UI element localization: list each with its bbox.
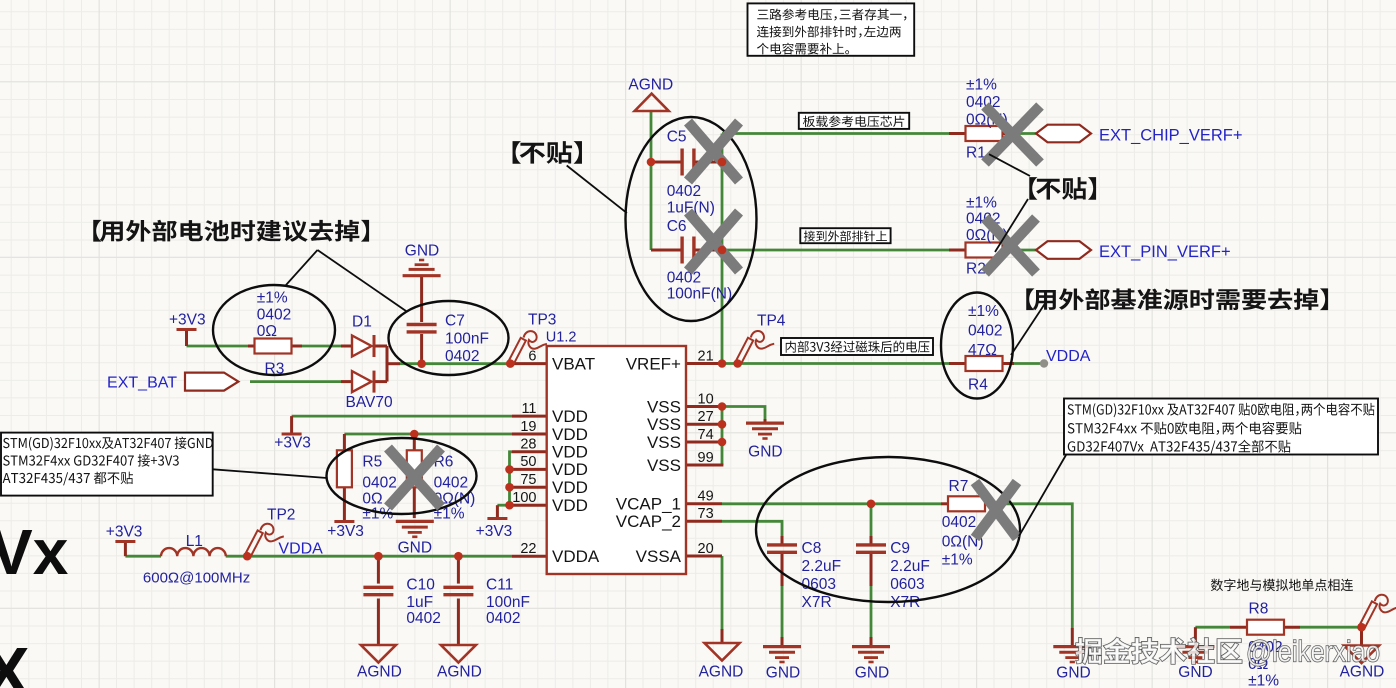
note text left STM line2	[3, 454, 179, 467]
svg-text:GND: GND	[1056, 665, 1090, 682]
svg-text:±1%: ±1%	[966, 195, 997, 212]
wire VCAP_1 net	[722, 502, 941, 505]
lead pin50 stub	[512, 468, 547, 471]
lead C5 left	[651, 161, 682, 164]
wire R1 to port	[1002, 132, 1036, 135]
resistor R5	[337, 450, 352, 487]
svg-text:TP4: TP4	[757, 313, 786, 330]
lead D1b anode	[341, 380, 352, 383]
wire R2 to port	[1002, 249, 1036, 252]
resistor R1	[966, 126, 1003, 141]
node VDDA no-erc dot	[1040, 359, 1048, 367]
lead R6 bottom	[413, 487, 416, 518]
lead C10 bottom	[377, 599, 380, 646]
svg-text:X: X	[0, 633, 30, 688]
wire +3V3 to R3	[187, 345, 249, 348]
junction pin10	[718, 402, 727, 411]
test point TP3	[508, 331, 547, 365]
svg-text:0402: 0402	[942, 514, 976, 531]
callout remove when external battery	[93, 220, 369, 242]
wire VREF+ rail	[722, 362, 949, 365]
svg-text:L1: L1	[186, 533, 203, 550]
svg-text:0402: 0402	[667, 270, 701, 287]
lead R5 bottom	[343, 487, 346, 520]
svg-text:VDD: VDD	[552, 425, 588, 444]
wire VSS to GND	[722, 407, 765, 422]
resistor R8	[1247, 620, 1284, 635]
svg-text:21: 21	[698, 348, 714, 364]
pointer from left bu-tie note to C5C6 ellipse	[567, 166, 627, 214]
svg-text:28: 28	[520, 437, 536, 453]
power +3V3 bar for pin100	[487, 517, 507, 520]
junction C5 left	[647, 158, 656, 167]
lead pin19 stub	[512, 433, 547, 436]
wire VDD right bus	[510, 452, 513, 505]
svg-text:VSS: VSS	[647, 456, 681, 475]
ellipse around R4	[941, 293, 1013, 399]
lead R3 right	[290, 345, 302, 348]
lead +3V3 pin100feed	[496, 505, 499, 517]
power +3V3 bar for R3	[177, 328, 197, 331]
pointer from right bu-tie note to R2 X	[995, 199, 1028, 252]
svg-text:+3V3: +3V3	[327, 523, 364, 540]
junction pin100	[505, 501, 514, 510]
wire EXT_BAT to D1	[250, 380, 341, 383]
svg-text:±1%: ±1%	[257, 290, 288, 307]
svg-text:27: 27	[698, 409, 714, 425]
diode D1 top half	[352, 336, 372, 357]
ground AGND under C10	[361, 645, 396, 663]
junction pin74	[718, 438, 727, 447]
svg-text:VDDA: VDDA	[1046, 348, 1091, 365]
ground GND under R6	[396, 520, 434, 523]
wire R8 right	[1300, 626, 1362, 629]
X mark over R2	[985, 218, 1036, 273]
ground AGND under pin20	[705, 643, 740, 661]
svg-text:2.2uF: 2.2uF	[802, 558, 842, 575]
svg-text:2.2uF: 2.2uF	[890, 558, 930, 575]
junction C9 VCAP1	[867, 500, 876, 509]
svg-text:0402: 0402	[667, 183, 701, 200]
svg-text:6: 6	[528, 348, 536, 364]
lead C9 top	[870, 536, 873, 544]
note text right STM line1	[1068, 403, 1375, 417]
svg-text:VREF+: VREF+	[626, 354, 681, 373]
svg-text:C11: C11	[486, 577, 513, 594]
callout bu-tie right	[1029, 177, 1096, 200]
power +3V3 bar for pin11	[282, 433, 302, 436]
wire R2 net	[722, 249, 949, 252]
note box three reference voltages	[748, 3, 915, 55]
X mark over C6	[688, 212, 739, 271]
callout digital analog single point	[1211, 579, 1353, 592]
resistor R3	[255, 339, 292, 354]
svg-text:VDD: VDD	[552, 478, 588, 497]
svg-text:EXT_CHIP_VERF+: EXT_CHIP_VERF+	[1099, 127, 1243, 145]
junction VREF bus	[718, 359, 727, 368]
note text external header	[804, 231, 887, 242]
svg-text:GND: GND	[1178, 664, 1212, 681]
test point TP4	[735, 331, 774, 365]
wire VDDA rail	[226, 555, 512, 558]
junction R8 right	[1357, 623, 1366, 632]
svg-text:AGND: AGND	[699, 664, 744, 681]
ellipse around R5 R6	[327, 438, 477, 514]
capacitor C8	[767, 543, 797, 546]
note text line3	[757, 43, 849, 55]
lead C7 top	[420, 277, 423, 322]
lead C6 right	[694, 249, 722, 252]
junction pin75	[505, 483, 514, 492]
junction C11	[454, 552, 463, 561]
resistor R2	[966, 243, 1003, 258]
svg-text:0402: 0402	[968, 323, 1002, 340]
svg-text:TP3: TP3	[528, 312, 556, 329]
lead C8 bottom stub	[781, 554, 784, 586]
svg-text:@leikerxiao: @leikerxiao	[1246, 636, 1380, 669]
capacitor C6	[680, 237, 683, 264]
lead pin20 stub	[686, 555, 722, 558]
capacitor C11	[443, 586, 473, 589]
ellipse around R3	[213, 285, 335, 375]
lead VSS gnd	[764, 419, 767, 423]
lead pin100 stub	[512, 504, 547, 507]
wire VBAT net	[400, 362, 512, 365]
lead pin6 stub	[510, 362, 546, 365]
svg-text:U1.2: U1.2	[546, 330, 577, 346]
svg-text:GND: GND	[405, 243, 439, 260]
lead D1 output bar	[386, 346, 389, 382]
svg-text:±1%: ±1%	[966, 77, 997, 94]
pointer from right STM note to C8C9 ellipse	[1019, 455, 1066, 536]
svg-text:VCAP_2: VCAP_2	[616, 512, 681, 531]
junction TP2	[243, 552, 252, 561]
wire R4 to VDDA	[1002, 362, 1040, 365]
IC U1.2 body	[547, 346, 686, 574]
capacitor C7	[407, 323, 437, 326]
ground GND under C9	[852, 645, 890, 648]
svg-text:19: 19	[520, 419, 536, 435]
ground AGND right of R8	[1344, 646, 1379, 664]
wire +3V3 to pin100	[497, 504, 509, 507]
note text onboard ref chip	[803, 116, 904, 128]
lead pin27 stub	[686, 423, 722, 426]
lead R2 right	[1002, 249, 1014, 252]
wire R3 to D1	[297, 345, 341, 348]
svg-text:R8: R8	[1249, 601, 1269, 618]
svg-text:C6: C6	[667, 218, 687, 235]
power +3V3 bar for L1	[115, 540, 135, 543]
svg-text:0402: 0402	[257, 307, 291, 324]
svg-text:BAV70: BAV70	[346, 394, 393, 411]
wire VSSA down	[721, 556, 724, 629]
lead GND right bus	[1071, 628, 1074, 645]
svg-text:C8: C8	[802, 540, 822, 557]
svg-text:GND: GND	[748, 444, 782, 461]
lead pin11 stub	[512, 415, 547, 418]
note box 3V3 after bead	[781, 338, 933, 355]
X mark over R1	[985, 106, 1040, 163]
svg-text:VBAT: VBAT	[552, 354, 595, 373]
svg-text:±1%: ±1%	[942, 552, 973, 569]
wire pin11 +3V3 net	[292, 415, 512, 418]
lead R8 agnd right	[1360, 627, 1363, 645]
svg-text:±1%: ±1%	[1248, 673, 1279, 688]
svg-text:Vx: Vx	[0, 516, 69, 588]
junction R6 top	[410, 430, 419, 439]
ground GND near VSS	[746, 422, 784, 425]
lead pin74 stub	[686, 441, 722, 444]
wire R8 left	[1195, 626, 1230, 629]
watermark juejin cjk	[1076, 637, 1242, 664]
port EXT_PIN_VERF+	[1036, 241, 1091, 259]
ground GND left of R8	[1176, 645, 1214, 648]
svg-text:0603: 0603	[890, 576, 924, 593]
svg-text:VSSA: VSSA	[636, 547, 682, 566]
lead pin10 stub	[686, 405, 722, 408]
junction C10	[374, 552, 383, 561]
svg-text:C9: C9	[890, 540, 910, 557]
lead C7 bottom	[420, 334, 423, 364]
svg-text:100nF(N): 100nF(N)	[667, 286, 732, 303]
lead R6 top	[413, 434, 416, 450]
ground AGND under C11	[441, 645, 476, 663]
svg-text:VSS: VSS	[647, 433, 681, 452]
wire pin19 net	[344, 433, 512, 436]
ellipse around C5 C6	[626, 117, 757, 321]
junction C5 right	[718, 158, 727, 167]
svg-text:AGND: AGND	[628, 77, 673, 94]
capacitor C10	[363, 586, 393, 589]
svg-text:VDD: VDD	[552, 460, 588, 479]
svg-text:100nF: 100nF	[486, 594, 530, 611]
lead R1 right	[1002, 132, 1014, 135]
test point TP2	[245, 524, 284, 558]
svg-text:47Ω: 47Ω	[968, 342, 997, 359]
svg-text:73: 73	[698, 506, 714, 522]
lead pin21 stub	[686, 362, 722, 365]
junction C6 right redraw	[718, 246, 727, 255]
wire VERF vertical bus	[721, 134, 724, 364]
lead +3V3 pin11feed	[290, 416, 293, 432]
svg-text:GND: GND	[855, 665, 889, 682]
lead pin73 stub	[686, 520, 722, 523]
lead pin99 stub	[686, 464, 723, 467]
lead R4 right	[1002, 362, 1014, 365]
svg-text:10: 10	[698, 391, 714, 407]
svg-text:75: 75	[520, 472, 536, 488]
svg-text:0402: 0402	[434, 475, 468, 492]
svg-text:C5: C5	[667, 129, 687, 146]
svg-text:74: 74	[698, 427, 714, 443]
lead C9 gnd	[870, 637, 873, 645]
svg-text:TP2: TP2	[267, 507, 295, 524]
note box right STM variants	[1064, 399, 1378, 455]
capacitor C9	[856, 543, 886, 546]
lead VSSA agnd	[721, 629, 724, 643]
wire C8 bottom	[781, 584, 784, 638]
svg-text:600Ω@100MHz: 600Ω@100MHz	[143, 570, 250, 587]
pointer from ext-ref note to R4 ellipse	[1011, 302, 1046, 355]
svg-text:EXT_PIN_VERF+: EXT_PIN_VERF+	[1099, 243, 1231, 261]
junction TP3	[506, 359, 515, 368]
X mark over C5	[688, 122, 739, 181]
svg-text:R5: R5	[362, 454, 382, 471]
lead R4 left	[949, 362, 966, 365]
wire VSS bus	[721, 407, 724, 466]
svg-text:±1%: ±1%	[968, 303, 999, 320]
lead D1 out to VBAT	[387, 362, 400, 365]
lead D1a anode	[341, 345, 352, 348]
wire R1 net	[722, 132, 949, 135]
resistor R6	[407, 450, 422, 487]
lead R1 left	[949, 132, 966, 135]
svg-text:1uF: 1uF	[406, 594, 433, 611]
inductor L1	[161, 548, 226, 556]
note text left STM line1	[3, 437, 213, 451]
pointer from battery note to R3 ellipse	[286, 250, 318, 285]
svg-text:GND: GND	[398, 540, 432, 557]
note box onboard ref chip	[799, 113, 909, 129]
lead pin22 stub	[512, 555, 547, 558]
resistor R4	[966, 356, 1003, 371]
X mark over R7	[975, 482, 1017, 538]
wire VDDA rail left	[125, 555, 161, 558]
svg-text:0402: 0402	[406, 610, 440, 627]
junction C6 right	[718, 246, 727, 255]
lead C6 left	[651, 249, 682, 252]
lead +3V3 L1feed	[124, 543, 127, 556]
svg-text:VCAP_1: VCAP_1	[616, 495, 681, 514]
svg-text:VDD: VDD	[552, 407, 588, 426]
wire VCAP_2 net	[722, 521, 782, 537]
svg-text:0Ω: 0Ω	[257, 323, 277, 340]
svg-text:EXT_BAT: EXT_BAT	[107, 375, 177, 392]
resistor R7	[948, 496, 985, 511]
port EXT_BAT	[185, 373, 238, 391]
junction C7 bottom	[417, 359, 426, 368]
svg-text:0402: 0402	[445, 348, 479, 365]
note text right STM line2	[1068, 422, 1302, 435]
callout bu-tie left	[513, 141, 582, 164]
lead D1b cathode	[374, 380, 387, 383]
svg-text:VDDA: VDDA	[552, 547, 600, 566]
svg-text:C7: C7	[445, 313, 465, 330]
svg-text:VSS: VSS	[647, 415, 681, 434]
power +3V3 bar under R5	[334, 520, 354, 523]
svg-text:X7R: X7R	[802, 594, 832, 611]
callout remove when external ref	[1026, 288, 1328, 310]
lead C10 top	[377, 556, 380, 583]
lead R8 right	[1283, 626, 1300, 629]
svg-text:+3V3: +3V3	[106, 524, 143, 541]
note text right STM line3	[1068, 440, 1291, 454]
capacitor C5	[680, 149, 683, 176]
lead R5 top	[343, 434, 346, 450]
svg-text:+3V3: +3V3	[169, 312, 206, 329]
note text line1	[757, 9, 906, 21]
lead pin28 stub	[512, 450, 547, 453]
lead R8 left	[1230, 626, 1248, 629]
lead R7 left	[941, 502, 949, 505]
svg-text:D1: D1	[352, 314, 372, 331]
pointer from battery note to C7 ellipse	[318, 250, 407, 311]
svg-text:50: 50	[520, 454, 536, 470]
ground GND above C7 inverted	[403, 274, 441, 277]
lead C8 top	[781, 536, 784, 544]
lead R7 right	[984, 502, 992, 505]
junction pin27	[718, 420, 727, 429]
svg-text:0402: 0402	[362, 475, 396, 492]
lead D1a cathode	[374, 345, 387, 348]
svg-text:100: 100	[512, 490, 536, 506]
svg-text:VDD: VDD	[552, 443, 588, 462]
svg-text:AGND: AGND	[437, 664, 482, 681]
lead +3V3 R3feed	[185, 331, 188, 346]
note text line2	[757, 26, 901, 38]
test point bottom right	[1359, 595, 1396, 629]
svg-text:99: 99	[698, 450, 714, 466]
pointer from left STM note to R5R6 ellipse	[213, 469, 327, 478]
svg-text:GND: GND	[766, 665, 800, 682]
junction C5 right redraw	[718, 158, 727, 167]
wire C9 bottom	[870, 584, 873, 638]
ground GND bottom right bus	[1053, 645, 1091, 648]
svg-text:100nF: 100nF	[445, 331, 489, 348]
lead C8 gnd	[781, 637, 784, 645]
wire AGND bus left of C5 C6	[650, 111, 653, 250]
svg-text:VDD: VDD	[552, 496, 588, 515]
note text 3V3 after bead	[786, 341, 930, 353]
svg-text:20: 20	[698, 541, 714, 557]
svg-text:C10: C10	[406, 577, 435, 594]
lead C9 bottom stub	[870, 554, 873, 586]
lead R2 left	[949, 249, 966, 252]
pointer from right bu-tie note to R1 X	[989, 154, 1030, 176]
junction pin50	[505, 465, 514, 474]
svg-text:VSS: VSS	[647, 397, 681, 416]
svg-text:+3V3: +3V3	[274, 435, 311, 452]
ground GND under C8	[763, 645, 801, 648]
svg-text:+3V3: +3V3	[476, 523, 513, 540]
wire R7 to GND corner	[992, 504, 1072, 628]
svg-text:11: 11	[521, 401, 536, 417]
diode D1 bottom half	[352, 371, 372, 392]
ellipse around C7	[389, 301, 509, 375]
X mark over R5 R6	[388, 448, 441, 507]
lead C5 right	[694, 161, 722, 164]
wire C9 top lead	[870, 504, 873, 537]
lead R8 gnd left	[1194, 627, 1197, 645]
junction TP4	[733, 359, 742, 368]
svg-text:22: 22	[520, 541, 536, 557]
lead R3 left	[248, 345, 256, 348]
svg-text:0402: 0402	[486, 610, 520, 627]
svg-text:AGND: AGND	[357, 664, 402, 681]
svg-text:R7: R7	[949, 478, 969, 495]
svg-text:VDDA: VDDA	[278, 541, 323, 558]
note box external header	[800, 228, 890, 243]
svg-text:R4: R4	[968, 377, 988, 394]
ellipse around C8 C9 R7	[756, 457, 1020, 602]
lead C11 top	[457, 556, 460, 583]
lead pin75 stub	[512, 486, 547, 489]
svg-text:49: 49	[698, 489, 714, 505]
note text left STM line3	[3, 472, 133, 486]
note box left STM variants	[1, 433, 213, 496]
ground AGND top near C5	[635, 94, 669, 111]
lead pin49 stub	[686, 502, 722, 505]
